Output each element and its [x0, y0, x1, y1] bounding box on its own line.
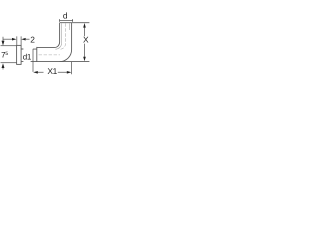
svg-text:X: X [83, 34, 89, 44]
svg-text:X1: X1 [47, 66, 57, 76]
svg-text:d: d [63, 10, 68, 20]
svg-text:d1: d1 [23, 52, 32, 61]
svg-text:2: 2 [30, 35, 35, 45]
